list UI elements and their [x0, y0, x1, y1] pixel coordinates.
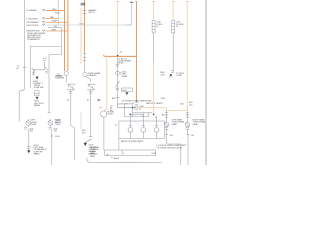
- wire bottom ground run: [87, 158, 162, 163]
- svg-text:OF REAR WIRING ASSY: OF REAR WIRING ASSY: [156, 147, 183, 150]
- rear lamp A: [164, 122, 169, 127]
- tick on lamp A wire: [165, 133, 168, 135]
- wire orange branch horizontal: [104, 55, 137, 57]
- svg-text:GRN: GRN: [52, 21, 57, 23]
- svg-text:SCHEMATICS: SCHEMATICS: [27, 38, 40, 41]
- flasher circle: [101, 111, 107, 117]
- box rear lamp assembly: [119, 121, 165, 138]
- wire peach right return: [167, 2, 188, 111]
- connector row1: [42, 9, 45, 12]
- svg-text:CONN: CONN: [176, 75, 182, 77]
- svg-text:FLASHER: FLASHER: [88, 74, 97, 77]
- inline connector on right trunk: [172, 21, 175, 33]
- svg-text:LAMP: LAMP: [172, 123, 178, 126]
- connector row3: [42, 21, 45, 24]
- box inner edge: [49, 55, 62, 113]
- junction network b: [132, 107, 133, 108]
- ground arrow in box: [36, 77, 39, 80]
- box turn signal switch assembly: [30, 28, 61, 88]
- svg-text:PANEL: PANEL: [34, 104, 41, 107]
- wire lamp B down: [186, 129, 189, 165]
- connector ticks mid column: [116, 64, 119, 66]
- connector on left ground wire: [27, 147, 31, 149]
- wire network horizontal main: [117, 107, 136, 109]
- connector under left lamp: [24, 127, 27, 129]
- lamp front left: [26, 121, 31, 126]
- svg-text:FEED: FEED: [118, 62, 124, 64]
- wire network vertical c: [147, 113, 149, 117]
- wire orange bus D: [84, 0, 86, 52]
- connector row4: [42, 24, 45, 27]
- wire faint mid segment: [80, 112, 82, 129]
- wire in box L path: [34, 62, 45, 75]
- svg-text:DK BLU/ORG: DK BLU/ORG: [27, 25, 39, 27]
- svg-text:DK GRN/WHT: DK GRN/WHT: [27, 22, 40, 24]
- svg-text:LT BLU/WHT: LT BLU/WHT: [27, 18, 39, 20]
- node box under box: [35, 91, 39, 96]
- wire mid column grey: [116, 56, 118, 107]
- svg-text:ORG: ORG: [79, 24, 84, 26]
- connector cluster right: [170, 74, 172, 76]
- ground arrow mid bottom: [84, 143, 87, 146]
- svg-text:LAMP: LAMP: [193, 123, 199, 126]
- wire orange bus A: [63, 0, 65, 71]
- svg-text:LICENSE LAMPS ARE PART: LICENSE LAMPS ARE PART: [156, 144, 187, 147]
- wire blue-grey corner top: [125, 2, 132, 25]
- svg-text:A BLK: A BLK: [114, 157, 120, 160]
- switch Z right: [87, 84, 95, 90]
- node S417 box: [121, 88, 132, 92]
- connector circle right switch: [83, 73, 87, 77]
- bulb 2: [141, 127, 146, 132]
- wire left Z column: [71, 90, 75, 160]
- wire network horizontal low: [124, 116, 148, 118]
- svg-text:ORG: ORG: [52, 9, 57, 11]
- tick on mid column: [116, 97, 120, 99]
- switch on mid column: [116, 81, 120, 90]
- wire row5 peach: [46, 30, 68, 32]
- connector C100 tick: [23, 66, 27, 68]
- bulb 3: [154, 127, 159, 132]
- ground arrow front left: [27, 150, 30, 153]
- connector on bus D: [83, 11, 87, 14]
- text below connector box: [111, 157, 113, 159]
- connector in box: [43, 58, 46, 62]
- wire left lamp ground: [28, 129, 30, 150]
- connector circle mid column: [116, 71, 120, 75]
- svg-text:LT GRN/BLK: LT GRN/BLK: [26, 10, 38, 12]
- tick left of flasher: [99, 107, 102, 109]
- wire network stub d: [130, 113, 143, 115]
- bulb 1: [128, 127, 133, 132]
- wire box left edge drop: [118, 138, 120, 150]
- top ticks: [116, 1, 189, 3]
- switch Z left: [67, 84, 75, 90]
- wire row3 peach: [46, 21, 68, 23]
- ground arrow mid left: [36, 97, 39, 100]
- wire row4 long grey: [46, 24, 132, 26]
- connector on right Z column: [89, 137, 93, 140]
- wire orange trunk right-mid: [135, 2, 137, 103]
- wire row6 short grey into box: [48, 27, 62, 29]
- junction dots network: [130, 114, 132, 116]
- wire peach branch down: [104, 56, 107, 110]
- ground arrow under S417: [125, 92, 128, 95]
- svg-text:TAN: TAN: [50, 16, 54, 19]
- connector row2: [42, 17, 45, 20]
- svg-text:TAIL/STOP/TURN LAMPS: TAIL/STOP/TURN LAMPS: [121, 140, 144, 143]
- connector row5: [42, 30, 45, 33]
- tick row2 end: [55, 19, 58, 21]
- hook marks network: [142, 113, 157, 119]
- connector box bottom C410: [105, 150, 156, 156]
- rear lamp B: [186, 106, 188, 113]
- connector dashes right mid: [165, 113, 168, 117]
- svg-text:C4 DK GRN STOP: C4 DK GRN STOP: [118, 103, 135, 105]
- connector under right lamp: [48, 127, 51, 129]
- wire orange bus B: [67, 0, 69, 71]
- tick top of blue-grey: [130, 1, 133, 3]
- svg-text:TURN: TURN: [31, 124, 37, 126]
- svg-text:FLASHER: FLASHER: [55, 77, 64, 80]
- svg-text:BRN: BRN: [52, 29, 57, 31]
- node top label: [81, 3, 86, 6]
- svg-text:SW C2: SW C2: [88, 12, 95, 14]
- wire row2 peach: [46, 18, 59, 20]
- tick on lamp B wire: [187, 133, 190, 135]
- connector ticks on orange trunk end: [135, 103, 139, 105]
- wire peach trunk mid: [116, 2, 118, 56]
- switch contact in box left: [32, 68, 35, 74]
- wire peach far right upper: [172, 2, 174, 21]
- svg-text:PANEL: PANEL: [34, 153, 41, 156]
- svg-text:FUSE 10A: FUSE 10A: [34, 86, 44, 89]
- junction dot mid trunk: [117, 55, 119, 57]
- wire left harness vertical: [19, 0, 25, 122]
- svg-text:ASSY: ASSY: [90, 155, 96, 158]
- tick on right ground wire: [50, 135, 53, 137]
- wire right Z column: [90, 90, 92, 137]
- wire flasher down: [103, 117, 105, 150]
- wire row1 orange: [46, 9, 65, 11]
- wire network vertical a: [123, 103, 125, 117]
- switch contact in box right: [45, 67, 48, 73]
- wire lamp A down corner: [167, 129, 181, 165]
- svg-text:REAR: REAR: [122, 75, 128, 78]
- connector circle orange trunk: [134, 106, 138, 110]
- wire peach bus C: [80, 8, 82, 64]
- svg-text:TURN: TURN: [55, 124, 61, 126]
- wire network horizontal mid: [133, 112, 153, 114]
- connector circle left switch: [64, 72, 68, 76]
- wire network vertical b: [132, 105, 134, 117]
- wire peach trunk centre-right: [153, 2, 155, 21]
- node S202 stub: [57, 0, 59, 25]
- wire right lamp ground to bottom: [51, 129, 53, 165]
- inline connector on centre trunk: [152, 21, 155, 33]
- connector ticks on bus D lower: [83, 54, 86, 61]
- lamp front right: [48, 121, 53, 126]
- svg-text:SEE STOP LAMPS: SEE STOP LAMPS: [146, 102, 163, 105]
- wire right page border: [205, 0, 207, 165]
